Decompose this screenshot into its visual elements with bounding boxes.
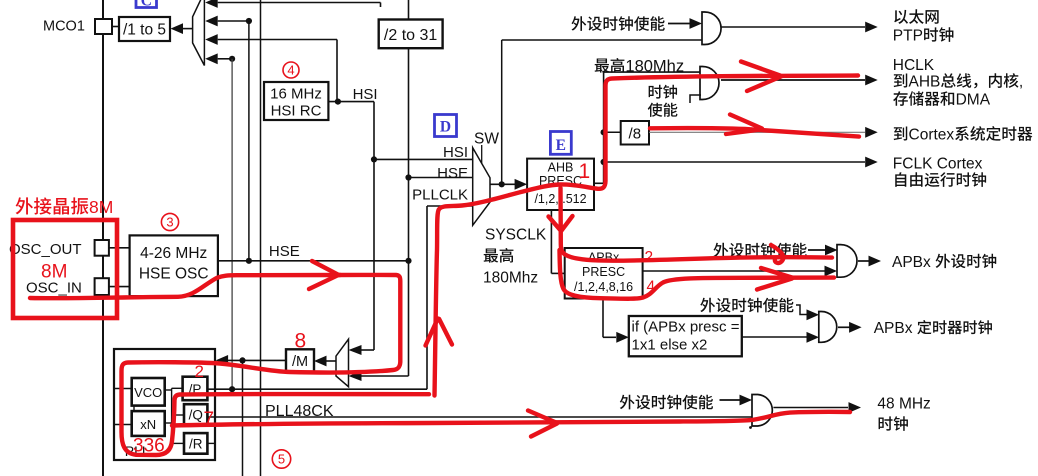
svg-text:5: 5 bbox=[278, 452, 285, 467]
wire mux input 1 bbox=[205, 0, 218, 8]
red arrow HCLK bbox=[741, 62, 781, 92]
wire enable PTP bbox=[668, 23, 690, 25]
wire AHB to APBx bbox=[550, 210, 552, 273]
wire /8 in bbox=[604, 131, 621, 133]
wire APBx to x2 bbox=[602, 299, 604, 338]
wire vertical PLLI2S bbox=[239, 357, 245, 363]
svg-text:HSI: HSI bbox=[353, 86, 378, 103]
svg-text:E: E bbox=[556, 137, 566, 154]
wire APBx clk out bbox=[858, 260, 869, 262]
chip boundary bbox=[102, 0, 104, 476]
wire PTP out bbox=[721, 26, 866, 28]
gate APBx timer bbox=[819, 312, 837, 343]
pin OSC_OUT bbox=[95, 240, 109, 256]
red circ 3 bbox=[161, 213, 178, 230]
red trace APBx lower bbox=[560, 250, 835, 299]
wire R stub bbox=[207, 442, 215, 444]
svg-text:Cortex: Cortex bbox=[909, 127, 955, 144]
label 48MHz cn bbox=[879, 416, 893, 430]
wire x2 out bbox=[742, 336, 807, 338]
svg-text:1x1 else x2: 1x1 else x2 bbox=[632, 337, 708, 354]
svg-text:/8: /8 bbox=[629, 126, 642, 143]
svg-text:,: , bbox=[1019, 74, 1023, 91]
div M bbox=[286, 349, 314, 372]
red curl APBx bbox=[771, 245, 783, 263]
svg-text:PRESC: PRESC bbox=[582, 265, 625, 279]
divider /1 to 5 bbox=[119, 17, 170, 41]
label periph enable APBx bbox=[714, 243, 729, 258]
divider /2 to 31 bbox=[379, 20, 443, 49]
svg-text:HSI RC: HSI RC bbox=[271, 103, 322, 120]
label FCLK cn bbox=[895, 172, 906, 187]
gate 48M bbox=[752, 395, 772, 427]
svg-text:APBx: APBx bbox=[874, 320, 913, 337]
wire PTP tap bbox=[501, 40, 503, 184]
stray dot bbox=[749, 426, 752, 429]
svg-text:DMA: DMA bbox=[956, 92, 991, 109]
red chevron 48M bbox=[528, 411, 557, 437]
svg-text:PLL48CK: PLL48CK bbox=[265, 403, 334, 420]
mux SW bbox=[473, 148, 490, 226]
node FCLK tap bbox=[601, 159, 607, 165]
svg-text:AHB: AHB bbox=[548, 161, 574, 175]
wire HCLK riser bbox=[594, 182, 604, 184]
label periph enable APBxT bbox=[700, 298, 715, 313]
svg-text:APBx: APBx bbox=[892, 254, 931, 271]
svg-text:HSE OSC: HSE OSC bbox=[139, 266, 209, 283]
wire APBx timer out bbox=[838, 326, 850, 328]
wire mux to /1to5 bbox=[171, 23, 184, 34]
red label ext crystal bbox=[16, 197, 33, 214]
svg-text:AHB: AHB bbox=[909, 74, 941, 91]
label ethernet bbox=[894, 10, 908, 24]
wire enable HCLK bbox=[690, 95, 701, 103]
wire HSE to SW bbox=[405, 174, 411, 180]
pll box bbox=[114, 349, 215, 460]
svg-text:8: 8 bbox=[295, 330, 307, 353]
gate APBx bbox=[837, 245, 857, 278]
svg-text:48 MHz: 48 MHz bbox=[877, 396, 930, 413]
wire SYSCLK out bbox=[490, 183, 515, 185]
wire enable APBxT bbox=[796, 305, 807, 315]
label HCLK cn1 bbox=[894, 73, 908, 87]
svg-text:1: 1 bbox=[579, 160, 591, 183]
node /8 tap bbox=[601, 129, 607, 135]
svg-text:/2 to 31: /2 to 31 bbox=[384, 27, 437, 44]
wire PLLCLK bbox=[207, 388, 427, 390]
label periph enable PTP bbox=[572, 16, 587, 31]
svg-text:/Q: /Q bbox=[189, 408, 203, 423]
label HCLK cn2 bbox=[893, 91, 908, 106]
red rect osc bbox=[13, 220, 117, 318]
svg-text:/1 to 5: /1 to 5 bbox=[123, 22, 166, 39]
svg-text:VCO: VCO bbox=[134, 385, 162, 400]
wire APBx out bbox=[643, 270, 825, 272]
mux PLL src bbox=[336, 339, 349, 387]
red arrow PLLCLK up bbox=[426, 319, 453, 346]
red trace 48M bbox=[172, 412, 850, 426]
red trace to PLL bbox=[122, 275, 430, 455]
blue box D bbox=[435, 115, 457, 137]
svg-text:3: 3 bbox=[166, 215, 173, 230]
svg-text:HSE: HSE bbox=[269, 243, 300, 260]
svg-text:2: 2 bbox=[645, 249, 654, 266]
svg-text:if (APBx presc =: if (APBx presc = bbox=[632, 319, 740, 336]
div R bbox=[184, 433, 207, 454]
wire MCO1 stub bbox=[112, 26, 119, 28]
block VCO bbox=[132, 378, 165, 406]
gate HCLK bbox=[700, 67, 719, 100]
wire HSI to pllmux bbox=[349, 345, 362, 355]
red circ 4 bbox=[283, 62, 299, 78]
node PLL-MCO bbox=[229, 56, 235, 62]
pll internal wires bbox=[114, 388, 132, 390]
svg-text:PTP: PTP bbox=[893, 28, 923, 45]
wire enable 48M bbox=[720, 399, 741, 401]
presc AHB bbox=[527, 159, 594, 210]
wire mux input 3 (HSI) bbox=[205, 34, 218, 45]
red chevron cortex bbox=[726, 115, 762, 135]
wire HSI to SW bbox=[374, 158, 473, 160]
red arrow HSE bbox=[309, 261, 338, 289]
blue box E bbox=[550, 132, 571, 155]
svg-text:PLLCLK: PLLCLK bbox=[412, 187, 468, 204]
wire HSE out bbox=[218, 260, 409, 262]
svg-text:180Mhz: 180Mhz bbox=[483, 270, 538, 287]
divider /8 bbox=[621, 121, 649, 145]
svg-text:4-26 MHz: 4-26 MHz bbox=[140, 245, 207, 262]
svg-text:8M: 8M bbox=[89, 197, 113, 217]
red trace HSE bbox=[30, 275, 340, 298]
wire HSI out bbox=[328, 101, 374, 103]
pin MCO1 bbox=[95, 19, 112, 34]
svg-text:4: 4 bbox=[287, 63, 294, 78]
svg-text:xN: xN bbox=[140, 417, 156, 432]
block xN bbox=[132, 411, 165, 436]
svg-text:FCLK Cortex: FCLK Cortex bbox=[893, 156, 983, 173]
wire cortex timer bbox=[649, 131, 865, 133]
label max180 top bbox=[595, 59, 610, 73]
osc HSE bbox=[130, 235, 218, 296]
wire 48M out bbox=[773, 407, 848, 409]
wire mux to M bbox=[314, 356, 327, 367]
gate PTP bbox=[702, 12, 721, 45]
svg-text:/R: /R bbox=[189, 437, 203, 452]
red trace PLLCLK up bbox=[435, 76, 859, 396]
osc HSI RC bbox=[264, 82, 328, 120]
svg-text:HSI: HSI bbox=[443, 144, 468, 161]
red trace APBx down bbox=[561, 188, 833, 261]
label cortex timer bbox=[894, 126, 908, 140]
svg-text:16 MHz: 16 MHz bbox=[270, 86, 322, 103]
wire FCLK bbox=[604, 161, 865, 163]
wire mux input 4 (PLL) bbox=[205, 53, 218, 64]
red trace cortex bbox=[650, 128, 859, 137]
svg-text:180Mhz: 180Mhz bbox=[625, 57, 684, 75]
wire vertical I2S bbox=[260, 0, 262, 476]
svg-text:C: C bbox=[141, 0, 152, 10]
wire HCLK out bbox=[721, 79, 865, 81]
svg-text:SYSCLK: SYSCLK bbox=[485, 227, 547, 244]
presc APBx bbox=[565, 248, 643, 299]
block if presc bbox=[629, 316, 742, 356]
label clock enable HCLK bbox=[649, 85, 663, 99]
wire PLL48CK bbox=[207, 416, 752, 418]
blue box C bbox=[136, 0, 157, 8]
wire RTC HSE bbox=[408, 0, 410, 20]
red arrow APBx down bbox=[549, 216, 573, 231]
mux MCO1 bbox=[193, 0, 205, 66]
svg-text:HSE: HSE bbox=[437, 165, 468, 182]
svg-text:/1,2,4,8,16: /1,2,4,8,16 bbox=[574, 280, 633, 294]
svg-text:HCLK: HCLK bbox=[893, 57, 935, 74]
wire M to PLL bbox=[216, 355, 229, 366]
svg-text:8M: 8M bbox=[41, 262, 67, 283]
div Q bbox=[184, 404, 207, 425]
red chevron APBx bbox=[757, 268, 792, 290]
svg-text:MCO1: MCO1 bbox=[43, 19, 85, 35]
wire mux input 2 (HSE) bbox=[205, 16, 218, 27]
wire enable APBx bbox=[808, 249, 826, 251]
svg-text:OSC_OUT: OSC_OUT bbox=[9, 241, 82, 258]
node HSE-MCO bbox=[246, 18, 252, 24]
label periph enable 48M bbox=[620, 395, 635, 410]
svg-text:D: D bbox=[440, 119, 451, 136]
svg-text:SW: SW bbox=[474, 131, 499, 148]
wire HSE to pllmux bbox=[349, 371, 362, 381]
div P bbox=[183, 377, 208, 401]
red circ 5 bbox=[272, 450, 290, 468]
svg-text:/M: /M bbox=[292, 354, 308, 370]
pin OSC_IN bbox=[95, 278, 109, 295]
